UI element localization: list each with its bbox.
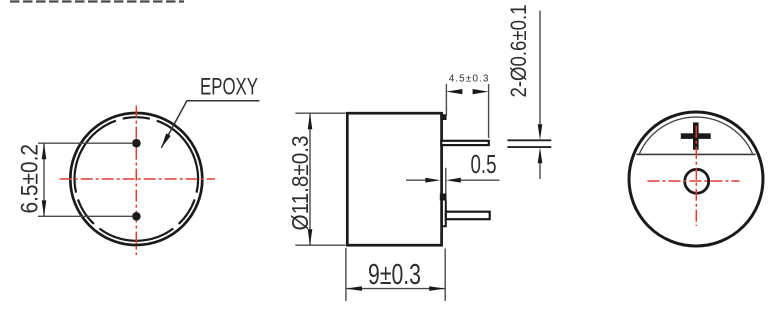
svg-text:9±0.3: 9±0.3 (368, 259, 421, 291)
solder square bottom (440, 194, 447, 201)
ext line d11.8 bottom (295, 244, 345, 246)
inner dome arc (639, 117, 753, 154)
dimension line 2-d0.6 lower (539, 161, 541, 179)
extension line top (38, 142, 132, 144)
dimension 4.5 arrows (446, 89, 462, 94)
svg-text:6.5±0.2: 6.5±0.2 (17, 144, 44, 214)
outer circle (629, 112, 763, 246)
ext line 4.5 left (445, 84, 447, 116)
outer circle (70, 113, 202, 245)
EPOXY leader line (161, 101, 259, 148)
dimension line d11.8 (309, 113, 311, 245)
ext line 9 right (444, 249, 446, 302)
center line vertical (red) (695, 126, 697, 226)
chord line (636, 153, 755, 155)
svg-text:0.5: 0.5 (471, 149, 497, 179)
center line horizontal (red) (60, 178, 215, 180)
ext line 9 left (345, 248, 347, 301)
center line horizontal (red) (647, 180, 739, 182)
solder square top (440, 114, 446, 120)
pin edge marks (507, 139, 551, 141)
svg-text:EPOXY: EPOXY (200, 74, 258, 101)
dimension line 2-d0.6 upper (539, 11, 541, 126)
dimension line 9 (346, 288, 445, 290)
step extension line (445, 168, 447, 194)
boss edge (441, 201, 446, 227)
plus mark (681, 133, 711, 139)
top border dashed line (10, 0, 184, 2)
pin 1 (top dot) (132, 139, 141, 148)
svg-text:2-Ø0.6±0.1: 2-Ø0.6±0.1 (506, 5, 531, 98)
ext line 4.5 right (488, 84, 490, 138)
inner circle (with notch gaps) (74, 117, 198, 241)
pin 2 (bottom dot) (132, 212, 141, 221)
center line vertical (red) (135, 106, 137, 255)
dim 0.5 leader right (459, 179, 500, 181)
dim 0.5 leader left (406, 179, 427, 181)
body rectangle (347, 113, 441, 245)
svg-text:4.5±0.3: 4.5±0.3 (449, 74, 489, 85)
extension line bottom (38, 215, 132, 217)
small circle (685, 169, 709, 193)
pin top (441, 141, 489, 145)
ext line d11.8 top (295, 112, 345, 114)
svg-text:Ø11.8±0.3: Ø11.8±0.3 (287, 136, 313, 231)
dimension line 6.5 (43, 143, 45, 216)
pin bottom (446, 212, 490, 220)
